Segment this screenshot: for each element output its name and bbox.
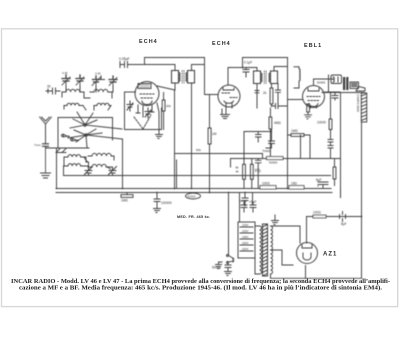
svg-text:3-30: 3-30 bbox=[62, 71, 68, 75]
coil L4 bbox=[94, 103, 111, 105]
trimmer C-ant1 bbox=[62, 75, 70, 86]
wire coils to switch bbox=[62, 86, 113, 110]
svg-text:ECH4: ECH4 bbox=[212, 41, 231, 47]
B plus line bottom right bbox=[306, 217, 308, 244]
wire secondary to AZ1 plates bbox=[271, 226, 362, 278]
svg-text:10000: 10000 bbox=[317, 121, 326, 125]
svg-text:30: 30 bbox=[47, 85, 51, 89]
trimmer C-osc1 bbox=[92, 76, 105, 86]
capacitor coupling to grid line bbox=[271, 104, 288, 109]
capacitor mains a bbox=[240, 199, 247, 212]
resistor 4M vertical bbox=[269, 108, 281, 158]
potentiometer TONO bbox=[186, 193, 201, 199]
wire mid horizontals bbox=[175, 154, 263, 168]
ground mains top bbox=[272, 215, 279, 225]
tube T4 AZ1 bbox=[297, 243, 318, 264]
resistor T3 cathode bbox=[307, 104, 310, 115]
wire IFT1 tops bbox=[145, 58, 219, 95]
wire T3 cathode bbox=[307, 104, 309, 106]
resistor feedback chain bbox=[317, 93, 332, 140]
capacitor pair right bbox=[328, 140, 333, 159]
main bus 2 bbox=[56, 192, 332, 194]
trimmer C-osc2 bbox=[109, 76, 117, 86]
wire field coil down bbox=[307, 122, 362, 278]
wire T2 grid left bbox=[209, 95, 211, 116]
wire speaker bus bbox=[322, 75, 364, 93]
wire hub right drop bbox=[122, 139, 124, 189]
wire right column bbox=[301, 135, 341, 159]
field coil hatched bbox=[361, 93, 366, 122]
trimmer T2 with arrow bbox=[109, 167, 117, 176]
IFT1 transformer bbox=[172, 71, 195, 84]
bus right verticals bbox=[340, 189, 342, 198]
main bus 1 bbox=[56, 188, 331, 190]
tube T3 EBL1 bbox=[303, 86, 325, 109]
ground T2 bbox=[221, 115, 230, 119]
capacitor mains switch bbox=[212, 263, 231, 272]
svg-text:75000: 75000 bbox=[262, 149, 271, 153]
svg-text:CAMPO 8000: CAMPO 8000 bbox=[356, 94, 360, 112]
svg-text:50000: 50000 bbox=[269, 161, 278, 165]
capacitor 100000 under bus bbox=[154, 193, 172, 208]
svg-text:7mm: 7mm bbox=[34, 143, 41, 147]
OT core hatched bbox=[343, 77, 348, 90]
capacitor 7mm antenna series bbox=[34, 143, 49, 148]
trimmer osc b bbox=[145, 108, 151, 118]
svg-text:TONO: TONO bbox=[187, 195, 196, 199]
svg-text:8μF: 8μF bbox=[341, 222, 347, 226]
svg-text:3-30: 3-30 bbox=[95, 72, 101, 76]
capacitor below junction bbox=[262, 141, 275, 153]
resistor 50000 on AF line bbox=[267, 157, 284, 165]
wire OT bottom down bbox=[340, 93, 342, 198]
pin stubs under T1 bbox=[136, 105, 154, 117]
output transformer OT bbox=[331, 75, 342, 84]
band switch hub 1 bbox=[70, 112, 122, 129]
ground left power bbox=[216, 262, 223, 269]
trimmer T1 with arrow bbox=[85, 167, 93, 176]
mains switch bbox=[227, 255, 235, 264]
ground T3 bbox=[305, 115, 312, 119]
band switch hub 2 bbox=[68, 129, 122, 148]
antenna bbox=[40, 117, 52, 133]
capacitor 8uF bus bbox=[242, 193, 256, 206]
resistor 1M horizontal bbox=[288, 129, 311, 158]
switch box outline bbox=[58, 118, 113, 148]
svg-text:1MΩ: 1MΩ bbox=[121, 199, 128, 203]
wire T2 cathode ground bbox=[222, 109, 226, 114]
resistor Rg2 vertical bbox=[196, 115, 217, 193]
svg-text:EBL1: EBL1 bbox=[304, 43, 322, 49]
svg-text:50k: 50k bbox=[196, 148, 201, 152]
ground 100000 bbox=[154, 209, 161, 213]
tube T1 ECH4 bbox=[125, 82, 160, 106]
wire T3 screen bbox=[325, 91, 340, 93]
svg-text:MED. FR. 465 kc.: MED. FR. 465 kc. bbox=[177, 215, 211, 219]
resistor under IFT2 bbox=[263, 84, 273, 107]
svg-text:1M: 1M bbox=[212, 132, 217, 136]
coil box right edge bbox=[176, 160, 178, 189]
coil L3 bbox=[64, 103, 83, 105]
wire grid feed to bus bbox=[287, 159, 289, 189]
resistor 100ohm on bus bbox=[260, 182, 276, 190]
ground osc bbox=[156, 131, 163, 139]
wire T3 anode to OT bbox=[314, 79, 334, 85]
svg-text:4MΩ: 4MΩ bbox=[274, 121, 281, 125]
svg-text:220V: 220V bbox=[242, 247, 249, 251]
svg-text:100Ω: 100Ω bbox=[262, 182, 270, 186]
coil L1 aerial bbox=[62, 89, 84, 92]
svg-text:cazione a MF e a BF. Media fre: cazione a MF e a BF. Media frequenza: 46… bbox=[19, 285, 383, 292]
coil L5 osc row1 bbox=[64, 155, 86, 157]
voltage selector bbox=[238, 222, 255, 258]
wire antenna stem down bbox=[45, 133, 47, 144]
top bus segment 1 bbox=[145, 57, 205, 59]
svg-text:0.1μ: 0.1μ bbox=[255, 169, 261, 173]
switch contact a bbox=[62, 134, 70, 137]
volume control resistors bbox=[236, 132, 246, 189]
switch contact b bbox=[71, 138, 79, 141]
capacitor under IFT2 right bbox=[276, 84, 281, 105]
tuning gang dashed link bbox=[134, 115, 151, 129]
resistor 4k vertical right bbox=[333, 159, 336, 186]
power feed verticals bbox=[229, 193, 253, 256]
svg-text:8μF: 8μF bbox=[316, 178, 322, 182]
AVC line bbox=[64, 166, 331, 176]
resistor 150ohm on bus bbox=[289, 182, 304, 190]
svg-text:ECH4: ECH4 bbox=[139, 39, 158, 45]
capacitor under AF line bbox=[256, 132, 262, 189]
transformer core hatched bbox=[263, 224, 268, 276]
tube T2 ECH4 bbox=[218, 85, 240, 108]
switch contacts on antenna line bbox=[56, 149, 66, 153]
svg-text:100Ω: 100Ω bbox=[313, 211, 321, 215]
capacitor padder left bbox=[46, 71, 101, 94]
resistor 1M under bus bbox=[121, 193, 133, 203]
resistor 100 on B line bbox=[313, 211, 326, 218]
wire T2 anode up bbox=[228, 68, 257, 86]
wire IFT2 left bottom bbox=[255, 84, 259, 109]
svg-text:125V: 125V bbox=[242, 223, 249, 227]
svg-text:2k: 2k bbox=[263, 91, 267, 95]
svg-text:160V: 160V bbox=[242, 241, 249, 245]
svg-text:20k: 20k bbox=[166, 104, 171, 108]
capacitor OT bottom bbox=[332, 93, 338, 101]
svg-text:0.05μF: 0.05μF bbox=[119, 57, 130, 61]
coil detector winding bbox=[294, 67, 300, 84]
coil L8 osc row2 bbox=[88, 164, 110, 167]
wires coil bank bbox=[64, 156, 114, 169]
trimmer osc a bbox=[127, 101, 133, 111]
wire T1 pins bbox=[157, 103, 159, 130]
wire IFT2 tops bbox=[274, 58, 303, 159]
svg-text:0.1μF: 0.1μF bbox=[244, 61, 252, 65]
ground mains bottom bbox=[225, 272, 232, 276]
svg-text:140V: 140V bbox=[242, 235, 249, 239]
resistor osc right bbox=[162, 93, 171, 130]
svg-text:110V: 110V bbox=[242, 229, 248, 233]
svg-text:50000: 50000 bbox=[317, 81, 326, 85]
capacitor 0.05uF top left bbox=[119, 57, 133, 68]
capacitor mains b bbox=[250, 202, 256, 212]
wire left feed bbox=[46, 148, 90, 189]
wire AF line bbox=[263, 158, 301, 160]
top bus segment 2 bbox=[243, 58, 288, 68]
capacitor 8uF B line bbox=[340, 212, 347, 227]
wire long vertical x174 bbox=[174, 90, 176, 189]
power transformer primary bbox=[255, 226, 262, 274]
caps 8uF pair bbox=[316, 178, 328, 188]
IFT2 transformer bbox=[254, 71, 278, 84]
svg-text:4k: 4k bbox=[236, 170, 240, 174]
speaker bbox=[350, 82, 365, 91]
svg-text:1MΩ: 1MΩ bbox=[291, 129, 298, 133]
coil L6 osc row1 bbox=[88, 153, 114, 156]
svg-text:15Ω: 15Ω bbox=[291, 182, 298, 186]
power transformer secondary bbox=[271, 226, 273, 274]
svg-text:INCAR RADIO - Modd. LV 46 e LV: INCAR RADIO - Modd. LV 46 e LV 47 - La p… bbox=[11, 279, 390, 285]
wire IFT1 to T1 anode bbox=[157, 83, 175, 90]
svg-text:AZ1: AZ1 bbox=[323, 252, 337, 258]
svg-text:5000: 5000 bbox=[240, 199, 247, 203]
trimmer C-ant2 bbox=[76, 75, 84, 86]
wire IFT1 right down bbox=[191, 83, 193, 189]
wire AZ1 bottom return bbox=[305, 266, 307, 279]
wire top grid T1 bbox=[120, 58, 145, 68]
coil L2 aerial bbox=[90, 89, 112, 92]
oscillator box bbox=[125, 93, 162, 130]
wire volume junction bbox=[244, 129, 272, 141]
wire detector coil down bbox=[294, 84, 299, 88]
svg-text:100000: 100000 bbox=[161, 201, 172, 205]
ground antenna bbox=[41, 148, 51, 178]
coil L7 osc row2 bbox=[64, 164, 88, 166]
